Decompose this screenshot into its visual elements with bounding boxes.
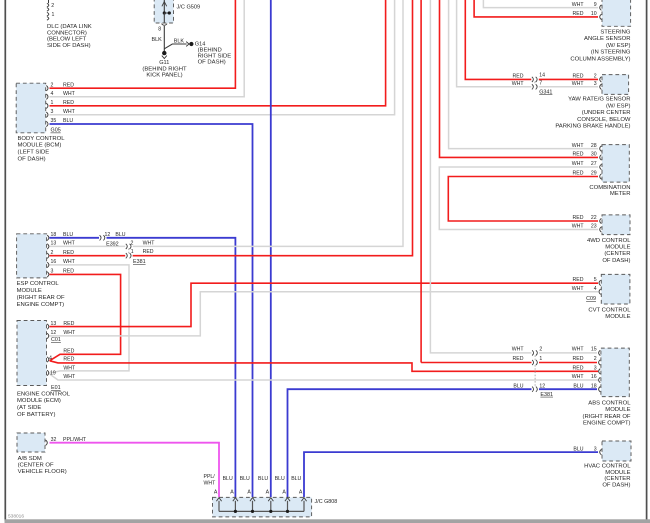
connector DLC pin 2 <box>48 0 50 3</box>
svg-text:WHT: WHT <box>63 330 76 336</box>
svg-text:2: 2 <box>51 3 54 9</box>
svg-text:OF DASH): OF DASH) <box>18 157 46 163</box>
wire RED BCM pin 2 to top <box>46 86 48 91</box>
svg-text:RED: RED <box>573 74 584 80</box>
svg-text:538016: 538016 <box>8 514 24 520</box>
connector DLC pin 1 <box>47 12 49 16</box>
svg-text:ANGLE SENSOR: ANGLE SENSOR <box>584 36 630 42</box>
svg-text:ABS CONTROL: ABS CONTROL <box>588 400 631 406</box>
svg-text:CVT CONTROL: CVT CONTROL <box>588 307 631 313</box>
svg-text:KICK PANEL): KICK PANEL) <box>146 73 182 79</box>
svg-text:2: 2 <box>51 82 54 88</box>
wire PPL/WHT A/B SDM pin 32 to J/C G808 <box>46 440 48 445</box>
svg-text:PPL/WHT: PPL/WHT <box>63 437 87 443</box>
svg-text:(CENTER OF: (CENTER OF <box>18 463 54 469</box>
svg-text:WHT: WHT <box>63 365 76 371</box>
svg-text:(W/ ESP): (W/ ESP) <box>606 43 631 49</box>
module A/B SDM box <box>17 433 45 452</box>
svg-text:A/B SDM: A/B SDM <box>18 456 42 462</box>
svg-text:G05: G05 <box>51 128 61 134</box>
svg-text:DLC (DATA LINK: DLC (DATA LINK <box>47 24 92 30</box>
svg-text:BLU: BLU <box>573 383 583 389</box>
svg-text:22: 22 <box>591 215 597 221</box>
right border frame <box>646 0 648 521</box>
junction connector J/C G509 <box>154 0 173 23</box>
svg-text:STEERING: STEERING <box>600 29 631 35</box>
svg-text:(IN STEERING: (IN STEERING <box>591 50 631 56</box>
svg-text:BLU: BLU <box>275 476 285 482</box>
svg-text:PARKING BRAKE HANDLE): PARKING BRAKE HANDLE) <box>555 124 630 130</box>
svg-text:CONNECTOR): CONNECTOR) <box>47 30 87 36</box>
svg-text:C09: C09 <box>586 296 596 302</box>
svg-text:OF DASH): OF DASH) <box>198 60 226 66</box>
connector E381 link dashes <box>128 249 130 254</box>
svg-text:RIGHT SIDE: RIGHT SIDE <box>198 54 232 60</box>
svg-text:1: 1 <box>51 100 54 106</box>
svg-text:13: 13 <box>51 241 57 247</box>
wire BLU vertical from top to J/C G808 <box>270 0 272 497</box>
module ECM box <box>17 321 47 386</box>
svg-text:WHT: WHT <box>572 347 585 353</box>
svg-text:RED: RED <box>573 215 584 221</box>
internal bus of J/C G808 <box>218 501 220 512</box>
svg-text:(RIGHT REAR OF: (RIGHT REAR OF <box>583 414 631 420</box>
wire BLK branch to ground G14 <box>164 44 186 49</box>
svg-text:27: 27 <box>591 161 597 167</box>
svg-text:MODULE: MODULE <box>17 288 42 294</box>
svg-text:A: A <box>266 490 270 496</box>
svg-text:A: A <box>247 490 251 496</box>
svg-text:18: 18 <box>591 383 597 389</box>
svg-text:A: A <box>230 490 234 496</box>
module Combination Meter box <box>602 145 629 183</box>
svg-text:BLU: BLU <box>63 118 73 124</box>
svg-text:23: 23 <box>591 224 597 230</box>
svg-text:28: 28 <box>591 143 597 149</box>
svg-text:WHT: WHT <box>572 374 585 380</box>
svg-text:YAW RATE/G SENSOR: YAW RATE/G SENSOR <box>568 97 630 103</box>
svg-text:RED: RED <box>63 82 74 88</box>
svg-text:RED: RED <box>63 348 74 354</box>
svg-text:ENGINE COMPT): ENGINE COMPT) <box>583 421 630 427</box>
wire BLU BCM pin 35 to J/C G808 <box>46 121 48 126</box>
svg-text:(CENTER: (CENTER <box>604 476 630 482</box>
svg-text:ENGINE COMPT): ENGINE COMPT) <box>17 302 64 308</box>
svg-text:12: 12 <box>51 330 57 336</box>
module Steering Angle Sensor box <box>602 0 631 26</box>
svg-text:BLU: BLU <box>223 476 233 482</box>
wire RED BCM pin 1 to top <box>46 103 48 108</box>
pin WHT 23 of 4WD <box>600 227 602 232</box>
svg-text:WHT: WHT <box>572 81 585 87</box>
svg-text:WHT: WHT <box>512 347 525 353</box>
svg-text:WHT: WHT <box>63 374 76 380</box>
wire RED yaw pin 2 via connector G341 to top <box>600 77 602 82</box>
wire WHT yaw pin 3 via connector G341 to top <box>600 84 602 89</box>
wire WHT ESP pin 16 to ECM pin 19 <box>47 262 49 267</box>
wire WHT ABS pin 15 via connector E381 to top <box>599 350 601 355</box>
svg-text:10: 10 <box>591 11 597 17</box>
svg-text:E01: E01 <box>51 385 61 391</box>
svg-text:J/C G509: J/C G509 <box>177 5 201 11</box>
pin RED 5 of CVT <box>599 280 601 285</box>
svg-text:OF DASH): OF DASH) <box>602 258 630 264</box>
svg-text:BLU: BLU <box>115 232 125 238</box>
wire BLU HVAC pin 3 to J/C G808 <box>600 449 602 454</box>
svg-text:COLUMN ASSEMBLY): COLUMN ASSEMBLY) <box>570 57 630 63</box>
svg-text:BLU: BLU <box>258 476 268 482</box>
svg-text:(UNDER CENTER: (UNDER CENTER <box>582 110 631 116</box>
svg-text:OF DASH): OF DASH) <box>602 483 630 489</box>
wire WHT combination meter pin 27 to 4WD pin 23 <box>600 164 602 169</box>
svg-text:RED: RED <box>143 249 154 255</box>
bottom gray band <box>5 519 650 523</box>
svg-text:4WD CONTROL: 4WD CONTROL <box>587 238 631 244</box>
svg-text:16: 16 <box>591 374 597 380</box>
svg-text:WHT: WHT <box>63 241 76 247</box>
svg-text:J/C G808: J/C G808 <box>315 499 338 505</box>
svg-text:13: 13 <box>51 321 57 327</box>
svg-text:(CENTER: (CENTER <box>604 251 630 257</box>
svg-text:WHT: WHT <box>63 259 76 265</box>
svg-text:12: 12 <box>539 383 545 389</box>
svg-text:19: 19 <box>50 371 56 377</box>
svg-text:3: 3 <box>594 366 597 372</box>
svg-text:BLK: BLK <box>152 37 163 43</box>
ground G11 <box>162 51 166 55</box>
svg-text:(LEFT SIDE: (LEFT SIDE <box>18 150 50 156</box>
svg-text:(BEHIND RIGHT: (BEHIND RIGHT <box>142 66 187 72</box>
svg-text:MODULE: MODULE <box>605 314 630 320</box>
svg-text:RED: RED <box>573 366 584 372</box>
svg-text:SIDE OF DASH): SIDE OF DASH) <box>47 43 91 49</box>
svg-text:RED: RED <box>63 250 74 256</box>
svg-text:CONSOLE, BELOW: CONSOLE, BELOW <box>577 117 631 123</box>
svg-text:E381: E381 <box>540 392 553 398</box>
module HVAC Control Module box <box>602 441 631 461</box>
svg-text:WHT: WHT <box>572 286 585 292</box>
svg-text:14: 14 <box>539 73 545 79</box>
svg-text:BLU: BLU <box>573 446 583 452</box>
svg-text:5: 5 <box>594 277 597 283</box>
svg-text:RED: RED <box>573 11 584 17</box>
svg-text:MODULE: MODULE <box>605 407 630 413</box>
svg-text:12: 12 <box>105 232 111 238</box>
svg-text:2: 2 <box>594 74 597 80</box>
wire RED ECM pin 13 to CVT pin 5 <box>47 324 49 329</box>
svg-text:3: 3 <box>594 81 597 87</box>
wire RED combination meter pin 29 to 4WD pin 22 <box>600 174 602 179</box>
module 4WD Control Module box <box>602 215 630 235</box>
svg-text:2: 2 <box>594 356 597 362</box>
svg-text:RED: RED <box>573 277 584 283</box>
svg-text:BLK: BLK <box>174 38 185 44</box>
svg-text:RED: RED <box>513 356 524 362</box>
svg-text:RED: RED <box>573 356 584 362</box>
ground G14 <box>186 42 189 47</box>
svg-text:8: 8 <box>158 27 161 33</box>
junction connector J/C G808 box <box>213 497 312 517</box>
svg-text:(RIGHT REAR OF: (RIGHT REAR OF <box>17 295 65 301</box>
svg-text:18: 18 <box>51 232 57 238</box>
pin WHT 4 of CVT <box>599 289 601 294</box>
pin RED 22 of 4WD <box>600 218 602 223</box>
svg-text:WHT: WHT <box>572 2 585 8</box>
module CVT Control Module box <box>601 274 630 304</box>
svg-text:1: 1 <box>52 12 55 18</box>
svg-text:BLU: BLU <box>513 383 523 389</box>
wire WHT combination meter pin 28 to top <box>600 146 602 151</box>
svg-text:G11: G11 <box>159 60 169 66</box>
svg-text:RED: RED <box>63 100 74 106</box>
svg-text:A: A <box>282 490 286 496</box>
svg-text:C01: C01 <box>51 337 61 343</box>
svg-text:30: 30 <box>591 152 597 158</box>
wire BLU ESP pin 18 via connector E392 to J/C G808 <box>47 235 49 240</box>
wire RED ABS pin 2 via connector E381 to top <box>599 360 601 365</box>
svg-text:29: 29 <box>591 171 597 177</box>
svg-text:ENGINE CONTROL: ENGINE CONTROL <box>17 391 71 397</box>
svg-text:1: 1 <box>131 249 134 255</box>
svg-text:E381: E381 <box>133 259 146 265</box>
connector E381 link dashes at ABS <box>534 355 536 360</box>
svg-text:RED: RED <box>573 171 584 177</box>
wire RED steering pin 10 to top <box>600 14 602 19</box>
module ESP box <box>17 234 47 278</box>
svg-text:A: A <box>214 490 218 496</box>
svg-text:35: 35 <box>51 118 57 124</box>
svg-text:MODULE (ECM): MODULE (ECM) <box>17 398 61 404</box>
svg-text:BODY CONTROL: BODY CONTROL <box>18 136 66 142</box>
svg-text:OF BATTERY): OF BATTERY) <box>17 412 55 418</box>
svg-text:PPL/: PPL/ <box>204 474 216 480</box>
svg-text:WHT: WHT <box>143 241 156 247</box>
svg-text:VEHICLE FLOOR): VEHICLE FLOOR) <box>18 469 67 475</box>
svg-text:MODULE: MODULE <box>605 245 630 251</box>
module Yaw Rate/G Sensor box <box>602 75 629 95</box>
svg-text:(BEHIND: (BEHIND <box>198 47 222 53</box>
svg-text:3: 3 <box>594 446 597 452</box>
wire BLK from G509 pin 8 to ground G11 <box>163 26 165 52</box>
svg-text:RED: RED <box>513 74 524 80</box>
svg-text:9: 9 <box>594 2 597 8</box>
svg-text:WHT: WHT <box>63 91 76 97</box>
connector G341 link dashes <box>534 82 536 85</box>
svg-text:WHT: WHT <box>512 81 525 87</box>
svg-text:(BELOW LEFT: (BELOW LEFT <box>47 37 87 43</box>
svg-text:BLU: BLU <box>291 476 301 482</box>
svg-text:WHT: WHT <box>572 161 585 167</box>
wire WHT BCM pin 4 to top <box>46 94 48 99</box>
svg-text:(W/ ESP): (W/ ESP) <box>606 103 631 109</box>
pin RED 3 of ABS <box>599 369 601 374</box>
svg-text:1: 1 <box>539 356 542 362</box>
svg-text:2: 2 <box>131 241 134 247</box>
svg-text:(AT SIDE: (AT SIDE <box>17 405 41 411</box>
svg-text:A: A <box>299 490 303 496</box>
wire RED ECM pin 4 second wire to ABS pin 3 <box>47 357 49 362</box>
svg-text:BLU: BLU <box>240 476 250 482</box>
pin WHT 16 of ABS <box>599 377 601 382</box>
svg-text:4: 4 <box>51 91 54 97</box>
svg-text:WHT: WHT <box>572 143 585 149</box>
svg-text:METER: METER <box>610 191 631 197</box>
svg-text:4: 4 <box>594 286 597 292</box>
svg-text:WHT: WHT <box>572 224 585 230</box>
svg-text:15: 15 <box>591 347 597 353</box>
svg-text:RED: RED <box>63 269 74 275</box>
module ABS Control Module box <box>601 348 629 397</box>
wire BLU ABS pin 18 via connector E381 to J/C G808 <box>599 387 601 392</box>
left border frame <box>4 0 6 521</box>
svg-text:WHT: WHT <box>63 109 76 115</box>
wire RED ESP pin 2 via connector to top <box>47 253 49 258</box>
svg-text:WHT: WHT <box>204 481 217 487</box>
svg-text:16: 16 <box>51 259 57 265</box>
svg-text:32: 32 <box>51 437 57 443</box>
svg-text:MODULE: MODULE <box>605 470 630 476</box>
svg-text:G341: G341 <box>539 89 552 95</box>
svg-text:HVAC CONTROL: HVAC CONTROL <box>584 463 631 469</box>
svg-text:RED: RED <box>63 356 74 362</box>
svg-text:4: 4 <box>49 355 52 361</box>
module BCM box <box>16 83 46 133</box>
wire WHT steering pin 9 to top <box>600 5 602 10</box>
wire WHT BCM pin 3 to top <box>46 112 48 117</box>
svg-text:2: 2 <box>51 250 54 256</box>
svg-text:BLU: BLU <box>63 232 73 238</box>
wire RED combination meter pin 30 to top <box>600 155 602 160</box>
wire WHT ECM pin 12 to CVT pin 4 <box>47 333 49 338</box>
svg-text:MODULE (BCM): MODULE (BCM) <box>18 143 62 149</box>
wire RED ESP pin 3 to ECM pin 4 <box>47 272 49 277</box>
svg-text:3: 3 <box>51 109 54 115</box>
svg-text:3: 3 <box>51 269 54 275</box>
svg-text:RED: RED <box>63 321 74 327</box>
wire WHT ESP pin 13 via connector to top <box>47 244 49 249</box>
svg-text:2: 2 <box>539 347 542 353</box>
svg-text:RED: RED <box>573 152 584 158</box>
svg-text:7: 7 <box>539 81 542 87</box>
svg-text:ESP CONTROL: ESP CONTROL <box>17 281 60 287</box>
wire WHT ECM pin 19 second wire to ABS pin 16 <box>47 370 49 375</box>
